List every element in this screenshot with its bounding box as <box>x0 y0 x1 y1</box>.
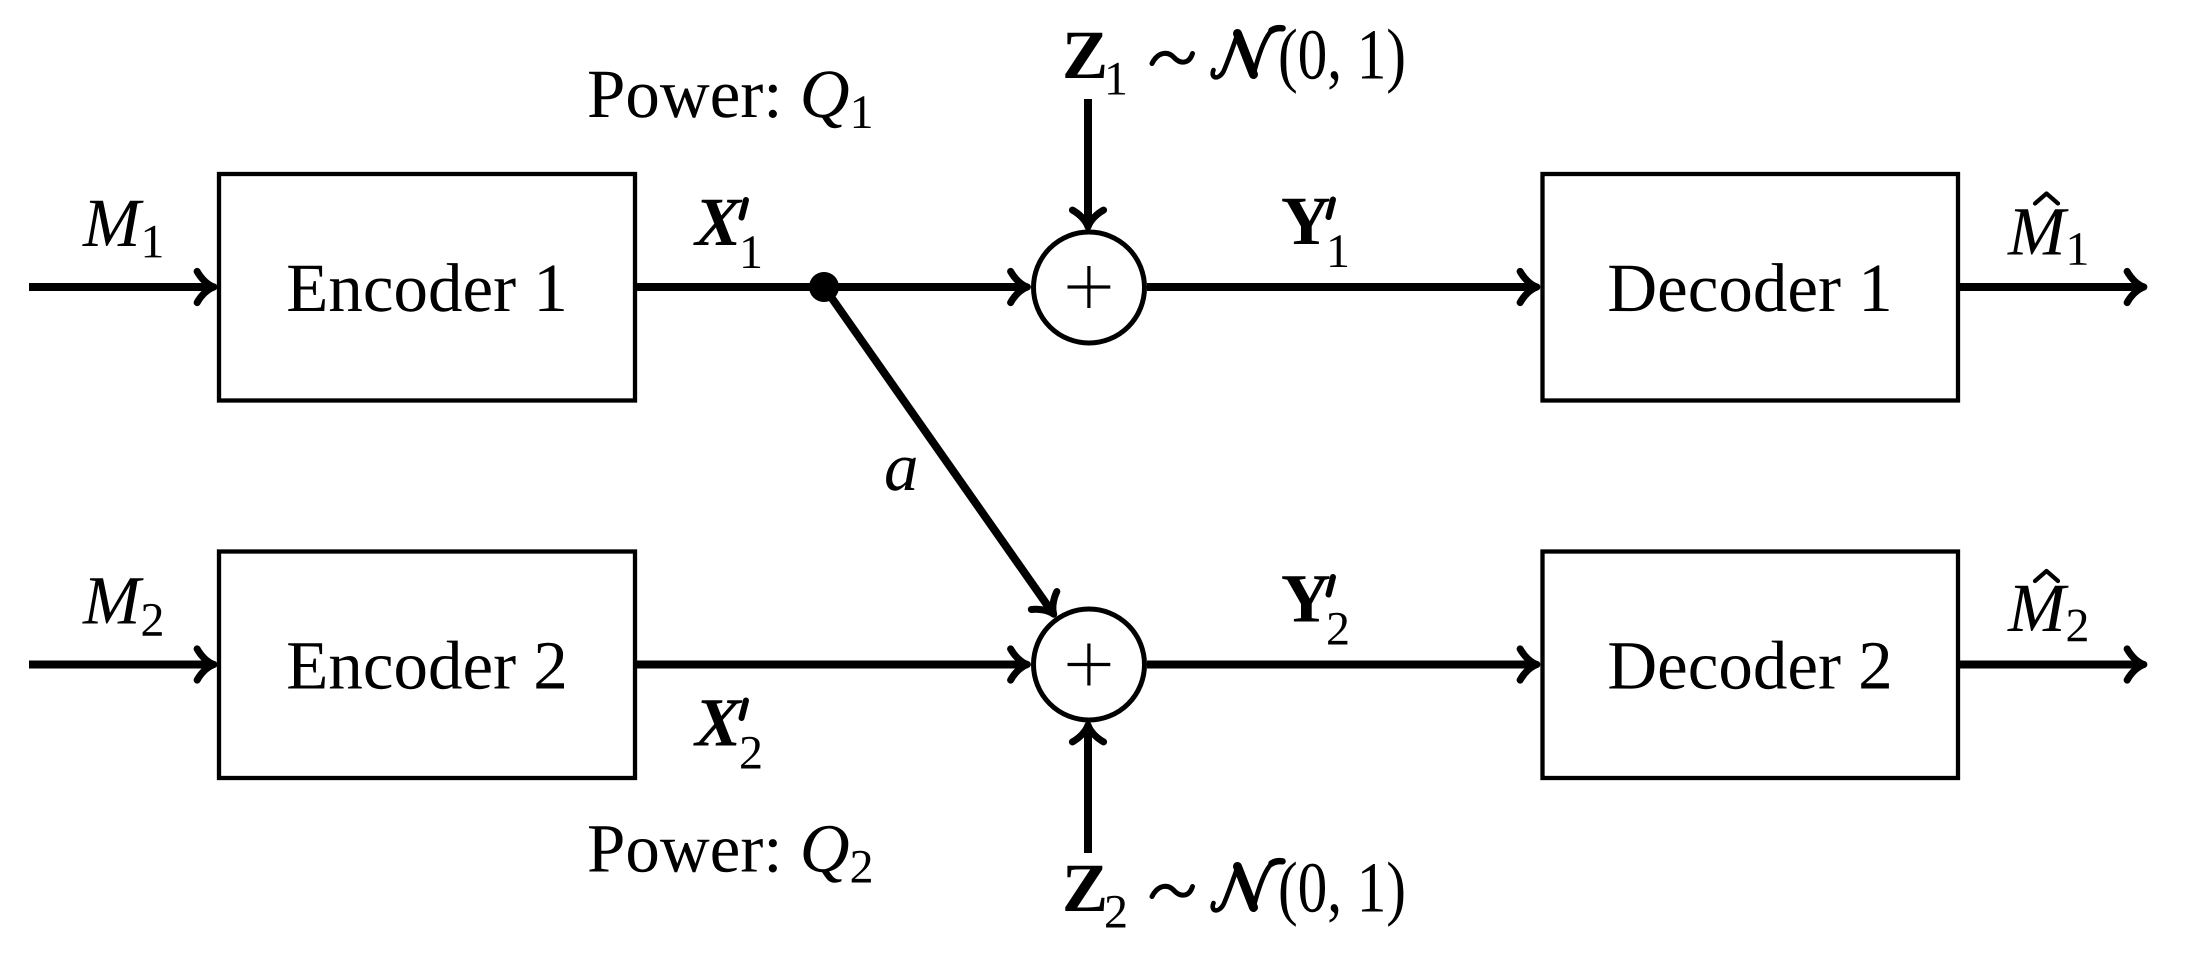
node dot on X1 wire <box>809 272 839 302</box>
subscript 1 of Y1 <box>1330 235 1347 267</box>
subscript 2 of X2 <box>741 737 760 769</box>
label a interference gain <box>886 458 916 491</box>
subscript 1 of Z1 <box>1108 63 1125 95</box>
args (0,1) of Z1 distribution <box>1281 29 1404 94</box>
label Power: Q1 <box>589 71 871 128</box>
wire Z1 noise input <box>1084 99 1092 226</box>
decoder 2 box <box>1543 552 1959 779</box>
label M-hat 2 <box>2007 586 2087 642</box>
hat of M-hat 2 <box>2035 571 2058 581</box>
arrowhead Z1 down into adder1 <box>1072 210 1103 227</box>
wire M1 input <box>29 283 212 291</box>
subscript 2 of Z2 <box>1106 896 1125 928</box>
label M-hat 1 <box>2007 209 2086 264</box>
label Encoder 2 <box>288 641 564 690</box>
label Decoder 2 <box>1609 641 1889 690</box>
label M2 <box>82 578 162 635</box>
arrowhead output M2 <box>2127 649 2144 680</box>
wire decoder2 output <box>1958 661 2143 669</box>
encoder 2 box <box>219 552 635 779</box>
wire adder1 to decoder1 <box>1147 283 1536 291</box>
label Y1 vector <box>1282 199 1329 244</box>
label Decoder 1 <box>1609 263 1888 312</box>
encoder 1 box <box>219 174 635 401</box>
adder 2 plus sign <box>1068 644 1111 686</box>
args (0,1) of Z2 distribution <box>1281 862 1404 927</box>
adder 1 plus sign <box>1068 266 1111 308</box>
arrowhead into decoder1 <box>1520 271 1537 302</box>
label Z1 vector <box>1065 33 1104 78</box>
label Y2 vector <box>1282 576 1329 621</box>
wire decoder1 output <box>1958 283 2143 291</box>
wire M2 input <box>29 661 212 669</box>
prime of X1 <box>742 200 747 218</box>
wire encoder1 to adder1 <box>637 283 1026 291</box>
adder 2 circle <box>1034 609 1145 720</box>
prime of Y1 <box>1329 200 1334 218</box>
arrowhead into encoder1 <box>197 271 214 302</box>
script N of Z2 distribution <box>1213 861 1283 910</box>
label Power: Q2 <box>589 826 871 883</box>
prime of Y2 <box>1329 577 1334 595</box>
prime of X2 <box>742 701 747 719</box>
wire encoder2 to adder2 <box>637 661 1026 669</box>
arrowhead output M1 <box>2127 271 2144 302</box>
label Z2 vector <box>1065 866 1104 911</box>
label M1 <box>82 201 161 258</box>
arrowhead into encoder2 <box>197 649 214 680</box>
arrowhead into adder1 <box>1011 271 1028 302</box>
decoder 1 box <box>1543 174 1959 401</box>
subscript 2 of Y2 <box>1328 613 1347 645</box>
tilde distributed-as of Z2 <box>1152 886 1193 896</box>
label X2 vector <box>693 700 742 745</box>
arrowhead Z2 up into adder2 <box>1072 725 1103 742</box>
wire interference diagonal a <box>824 287 1052 612</box>
wire Z2 noise input <box>1084 727 1092 854</box>
arrowhead diagonal into adder2 <box>1031 592 1066 624</box>
arrowhead into decoder2 <box>1520 649 1537 680</box>
script N of Z1 distribution <box>1213 28 1283 77</box>
tilde distributed-as of Z1 <box>1152 53 1193 63</box>
arrowhead into adder2 <box>1011 649 1028 680</box>
subscript 1 of X1 <box>743 236 760 268</box>
wire adder2 to decoder2 <box>1147 661 1536 669</box>
label X1 vector <box>693 200 742 245</box>
label Encoder 1 <box>288 263 564 312</box>
hat of M-hat 1 <box>2035 194 2058 204</box>
adder 1 circle <box>1034 232 1145 343</box>
